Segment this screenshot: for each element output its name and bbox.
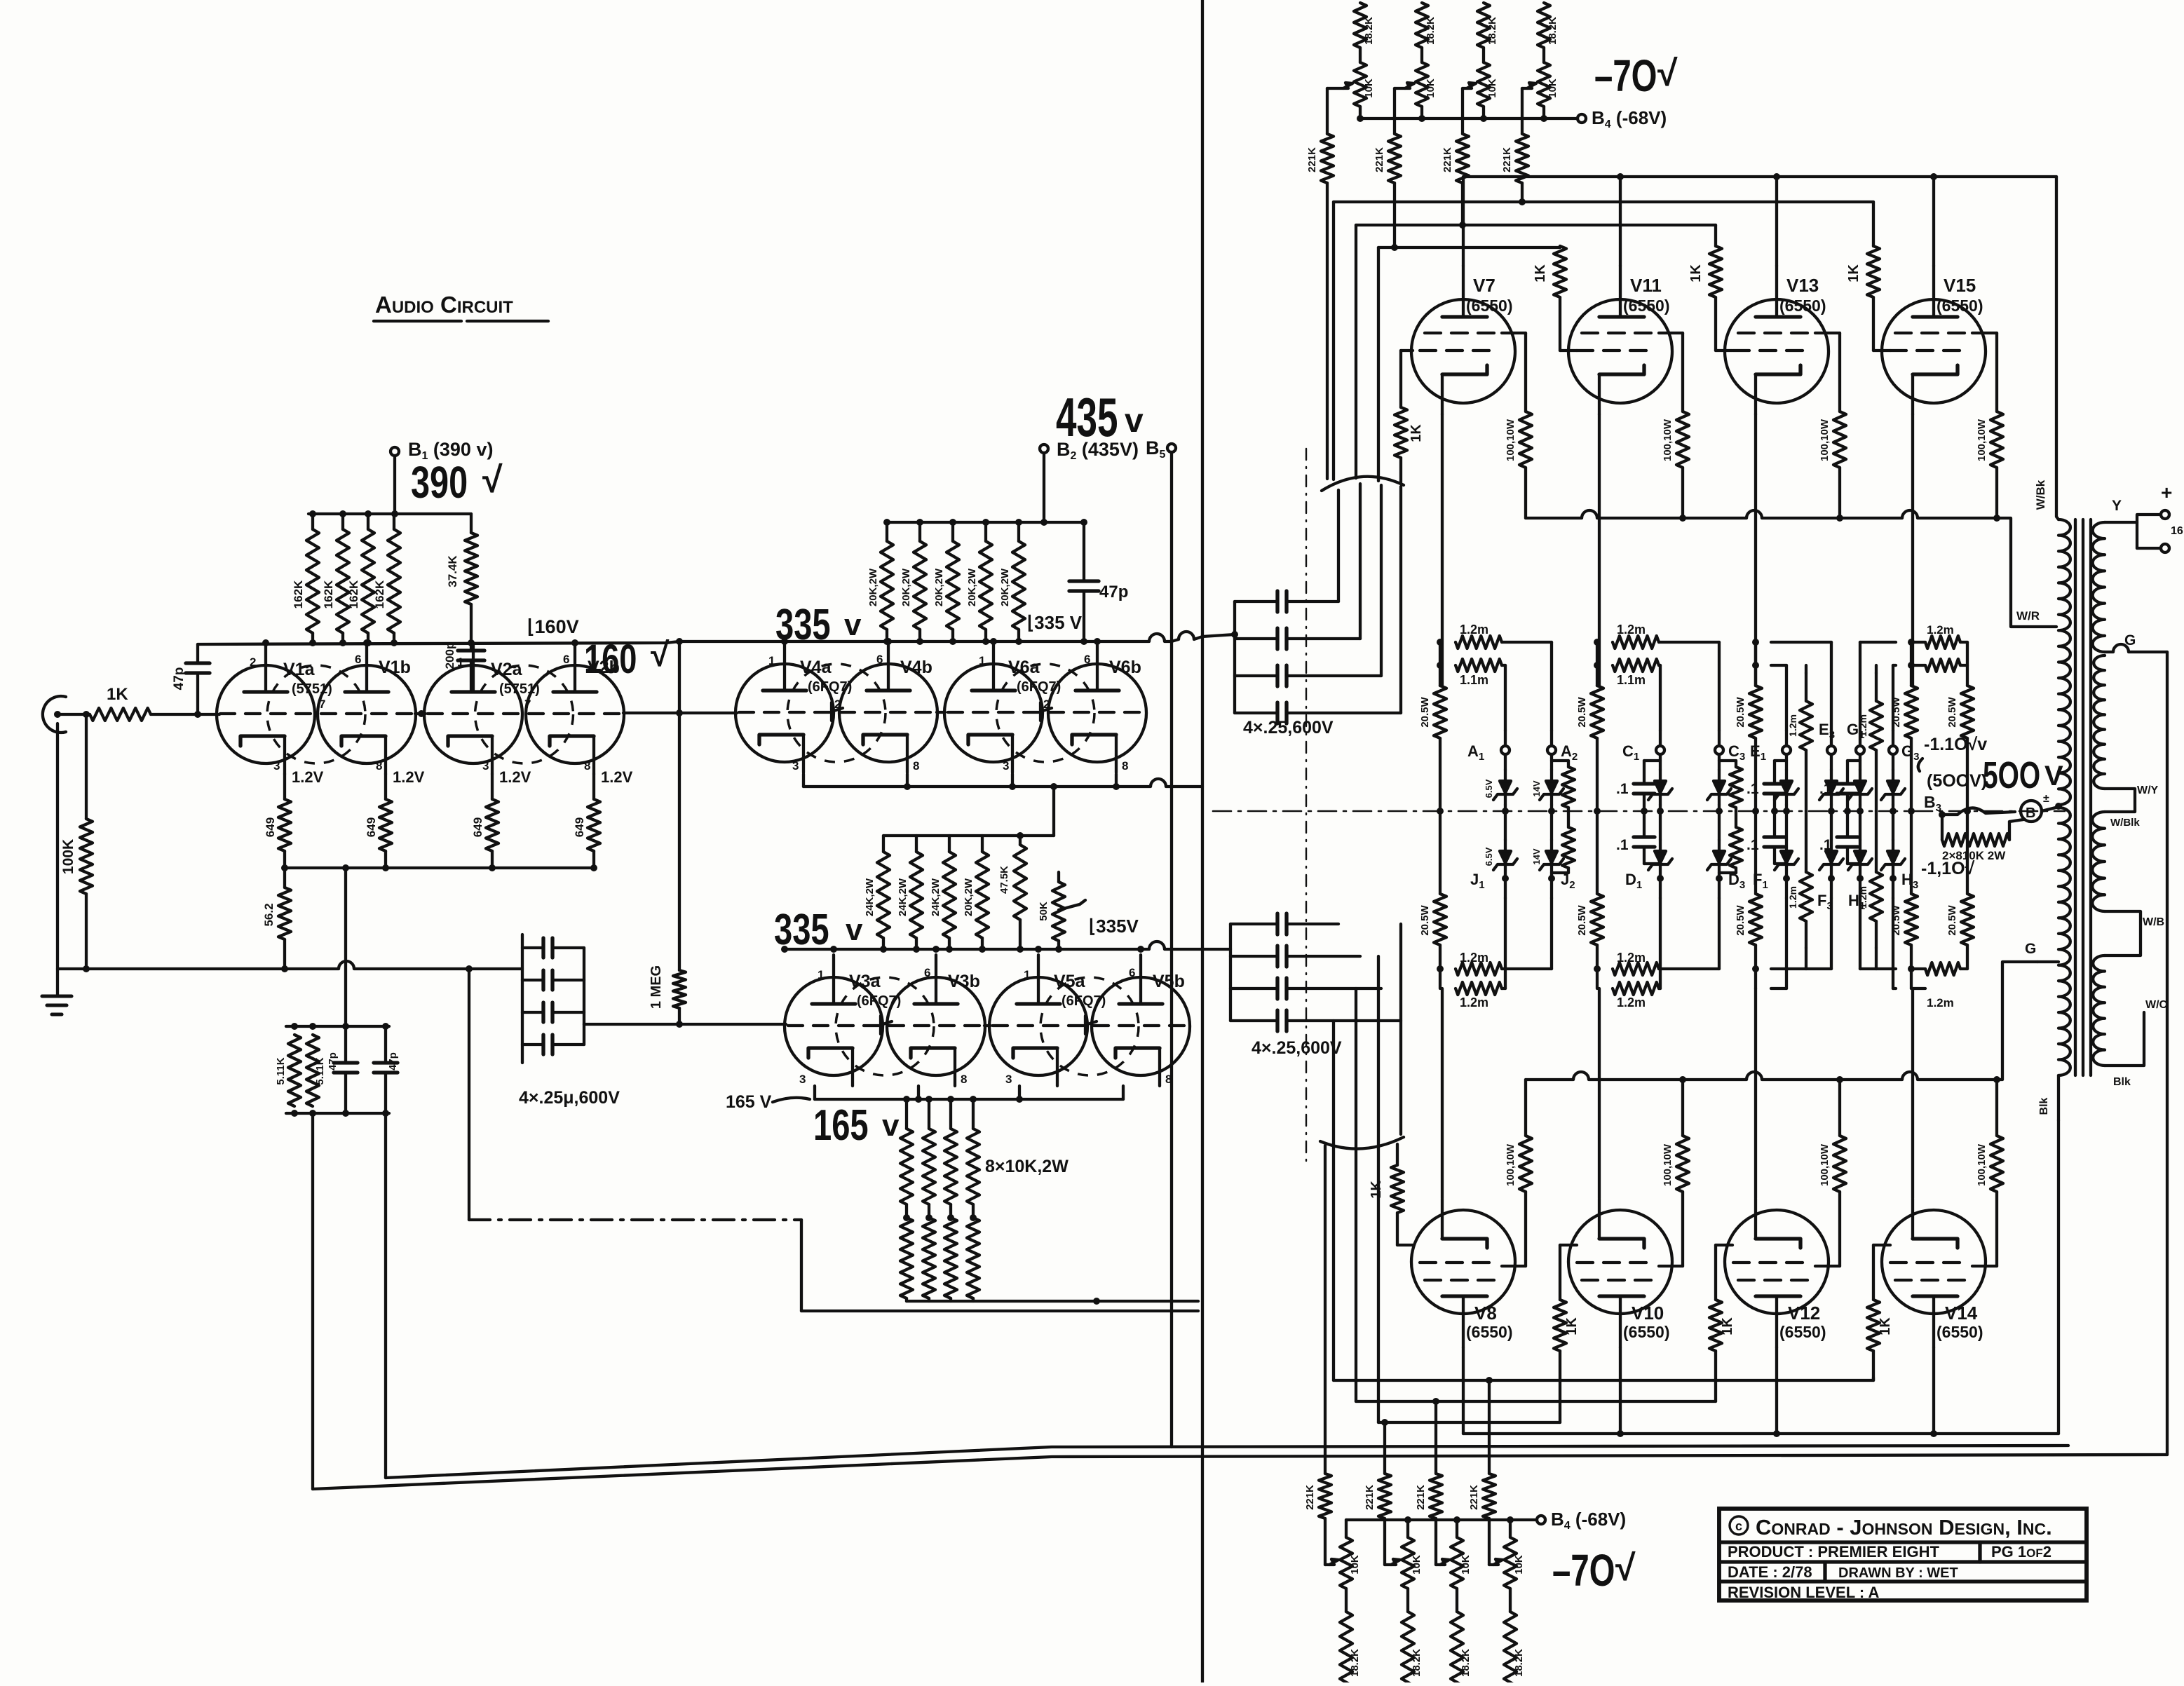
- wire riser u4 below arc: [1399, 487, 1402, 713]
- svg-text:24K,2W: 24K,2W: [897, 878, 909, 916]
- resistor R 221K up #2: [1374, 88, 1401, 183]
- svg-text:6: 6: [876, 653, 883, 666]
- node J2: [1548, 871, 1575, 898]
- svg-text:5OO: 5OO: [1983, 754, 2040, 796]
- svg-text:8: 8: [584, 759, 590, 773]
- svg-text:37.4K: 37.4K: [446, 555, 459, 587]
- capacitor C .25 upper #1: [1235, 591, 1338, 612]
- bus 8x10K bottom: [907, 1298, 1198, 1305]
- resistor R 56.2: [262, 868, 291, 972]
- label 165V small: [726, 1092, 810, 1112]
- bus 162K top: [308, 510, 471, 517]
- resistor R 20.5W column x2054: [1419, 639, 1446, 988]
- wire screen stub lower: [1815, 1265, 1840, 1267]
- svg-text:1K: 1K: [1720, 1317, 1735, 1335]
- svg-text:1K: 1K: [107, 685, 128, 704]
- svg-text:18.2K: 18.2K: [1363, 17, 1375, 45]
- resistor R 20.5W column x2504: [1735, 639, 1762, 988]
- wire screen stub lower: [1972, 1265, 1997, 1267]
- terminal B4 lower: [1537, 1509, 1626, 1532]
- svg-text:6: 6: [1129, 966, 1135, 979]
- wire plate lead down: [1775, 1347, 1778, 1434]
- resistor R 18.2K down #4: [1504, 1589, 1525, 1686]
- label W/Bk: [2034, 480, 2047, 510]
- svg-text:V12: V12: [1788, 1303, 1820, 1324]
- svg-text:1K: 1K: [1564, 1317, 1580, 1335]
- svg-text:W/B: W/B: [2143, 916, 2164, 928]
- svg-text:⌊335V: ⌊335V: [1089, 916, 1139, 937]
- tube V1 (5751) dual triode: [217, 643, 416, 774]
- svg-text:165: 165: [813, 1101, 869, 1150]
- tube V5 (6FQ7) dual triode: [989, 955, 1190, 1086]
- svg-text:1.2m: 1.2m: [1460, 995, 1488, 1009]
- label V6b: [1109, 658, 1141, 677]
- resistor R 20K,2W #4: [966, 522, 992, 641]
- capacitor column .1 g3: [1746, 761, 1786, 864]
- wire cathode up lower: [1441, 988, 1444, 1198]
- svg-text:6: 6: [1084, 653, 1090, 666]
- resistor R 100,10W lower: [1662, 1080, 1689, 1266]
- svg-text:PG 1OF2: PG 1OF2: [1991, 1543, 2051, 1561]
- svg-text:DRAWN BY : WET: DRAWN BY : WET: [1838, 1565, 1958, 1581]
- resistor network 2x810K: [1942, 815, 2023, 862]
- zener column A1-J1: [1484, 754, 1517, 876]
- svg-text:4×.25,600V: 4×.25,600V: [1243, 718, 1334, 737]
- svg-text:1: 1: [768, 654, 775, 667]
- svg-text:√: √: [1657, 53, 1678, 94]
- svg-text:(6FQ7): (6FQ7): [857, 993, 901, 1009]
- label -1,10 lower: [1921, 859, 1975, 878]
- svg-text:V5a: V5a: [1054, 972, 1086, 991]
- wire screen stub: [1815, 332, 1840, 334]
- svg-text:10K: 10K: [1486, 79, 1498, 98]
- svg-text:47p: 47p: [327, 1052, 339, 1070]
- resistor R 162K #4: [373, 514, 400, 643]
- svg-text:162K: 162K: [322, 580, 335, 609]
- bus 24K bank top: [883, 783, 1057, 836]
- svg-text:100,10W: 100,10W: [1976, 1143, 1988, 1186]
- svg-text:1: 1: [979, 654, 985, 667]
- cell group4 rails: [1860, 642, 1896, 988]
- svg-text:G: G: [2124, 632, 2136, 648]
- svg-text:1.2V: 1.2V: [393, 768, 425, 786]
- svg-text:-1.1O√v: -1.1O√v: [1924, 735, 1987, 754]
- svg-text:W/C: W/C: [2145, 999, 2168, 1011]
- resistor R 100,10W upper: [1662, 333, 1689, 518]
- wire 1K to V1a grid: [83, 711, 219, 718]
- terminal B1: [391, 439, 493, 462]
- resistor R 1 MEG: [649, 965, 686, 1024]
- resistor R 24K,2W lower #1: [864, 836, 890, 949]
- title block frame: [1719, 1509, 2087, 1600]
- svg-text:56.2: 56.2: [262, 903, 276, 926]
- node C1: [1622, 730, 1664, 763]
- wire sec 16ohm: [2137, 522, 2183, 552]
- svg-text:3: 3: [1003, 759, 1009, 773]
- svg-text:4×.25μ,600V: 4×.25μ,600V: [519, 1088, 620, 1108]
- resistor R 100,10W upper: [1819, 333, 1846, 518]
- svg-text:(6550): (6550): [1937, 297, 1983, 315]
- svg-text:V2a: V2a: [491, 660, 523, 679]
- resistor R 10K up #1: [1354, 62, 1375, 118]
- tube V2 (5751) dual triode: [424, 643, 624, 774]
- wire cathode up lower: [1754, 988, 1757, 1198]
- svg-text:.1: .1: [1746, 781, 1759, 797]
- svg-text:+: +: [2161, 482, 2172, 503]
- resistor R 649 cathode #3: [471, 768, 531, 871]
- wire screen stub: [1502, 332, 1526, 334]
- svg-text:B4 (-68V): B4 (-68V): [1592, 107, 1667, 130]
- tube V4 (6FQ7) dual triode: [735, 641, 937, 773]
- resistor R 100,10W upper: [1505, 333, 1532, 518]
- terminal B5: [1146, 437, 1176, 461]
- label V8: [1466, 1303, 1512, 1341]
- wire col4 to busA: [1521, 183, 1524, 202]
- resistor column 1.2m g3a: [1787, 665, 1812, 969]
- resistor R 1K grid V7: [1395, 351, 1424, 484]
- node A2: [1547, 730, 1578, 763]
- wire sec tap WY: [2105, 784, 2159, 829]
- wire plate lead down: [1619, 1347, 1622, 1434]
- label 335V small upper: [1027, 612, 1083, 633]
- ground bus left: [57, 723, 473, 972]
- wire riser u2 below arc: [1359, 484, 1362, 639]
- svg-text:8: 8: [1165, 1073, 1172, 1086]
- svg-text:100,10W: 100,10W: [1819, 1143, 1831, 1186]
- svg-text:100,10W: 100,10W: [1976, 419, 1988, 461]
- label 335V big upper: [775, 600, 862, 649]
- wire plate lead up: [1775, 177, 1778, 266]
- svg-text:100K: 100K: [60, 839, 76, 874]
- resistor R 162K #2: [322, 514, 349, 643]
- capacitor C .25u left #1: [522, 938, 584, 958]
- resistor R 20K,2W #2: [900, 522, 926, 641]
- cell group1 rails: [1456, 623, 1552, 1009]
- svg-text:V: V: [2044, 761, 2063, 791]
- resistor R 10K,2W row2 #1: [900, 1214, 913, 1301]
- node G3: [1889, 730, 1919, 763]
- label V13: [1779, 275, 1826, 315]
- svg-text:221K: 221K: [1304, 1485, 1316, 1510]
- resistor R 100,10W lower: [1505, 1080, 1532, 1266]
- svg-text:W/Y: W/Y: [2137, 784, 2159, 796]
- resistor R 221K down #2: [1364, 1474, 1391, 1518]
- bus grid upper B: [1356, 222, 1716, 246]
- capacitor C .25 lower #3: [1230, 978, 1381, 999]
- bus plates lower: [1463, 1430, 2058, 1437]
- wire grid join V1-V2: [415, 710, 426, 717]
- svg-text:1K: 1K: [1846, 264, 1861, 283]
- resistor R 1K grid lower: [1709, 1245, 1735, 1401]
- wire V3b-V5a grid join: [984, 1024, 991, 1027]
- svg-text:√: √: [482, 460, 503, 501]
- svg-text:10K: 10K: [1349, 1555, 1361, 1575]
- resistor R 1K grid V8: [1369, 1144, 1413, 1245]
- capacitor C .25 upper #4: [1235, 702, 1401, 723]
- wire bias col down #1: [1324, 1145, 1327, 1474]
- svg-text:649: 649: [573, 817, 586, 837]
- tube V3 (6FQ7) dual triode: [785, 955, 985, 1086]
- bus cathode V3V5: [815, 1086, 1123, 1103]
- svg-text:V4a: V4a: [800, 658, 832, 677]
- pins V1: [250, 653, 382, 773]
- svg-text:1.2m: 1.2m: [1460, 951, 1488, 965]
- svg-text:4×.25,600V: 4×.25,600V: [1252, 1038, 1342, 1058]
- svg-text:8: 8: [376, 759, 382, 773]
- node F3: [1817, 875, 1835, 912]
- transformer primary coil: [2055, 519, 2070, 1075]
- bus plate 335V lower: [781, 941, 1230, 953]
- bus cathode V1V2: [285, 864, 594, 871]
- svg-text:6: 6: [563, 653, 569, 666]
- svg-text:100,10W: 100,10W: [1505, 419, 1517, 461]
- capacitor C .25 lower #1: [1230, 913, 1338, 934]
- svg-text:221K: 221K: [1364, 1485, 1376, 1510]
- wire V2b grid to V4a grid: [623, 709, 737, 716]
- svg-text:(6550): (6550): [1779, 1323, 1826, 1341]
- svg-text:20K,2W: 20K,2W: [963, 878, 975, 916]
- resistor R 10K,2W row2 #3: [944, 1214, 957, 1301]
- svg-text:20.5W: 20.5W: [1576, 696, 1588, 727]
- svg-text:2×810K 2W: 2×810K 2W: [1942, 849, 2006, 862]
- svg-text:(5751): (5751): [499, 681, 540, 697]
- cap bank lower left rail: [1229, 924, 1232, 1021]
- label 4x.25,600V lower: [1252, 1038, 1342, 1058]
- pins V2: [457, 653, 590, 773]
- svg-text:±: ±: [2043, 793, 2049, 805]
- svg-text:1K: 1K: [1533, 264, 1548, 283]
- resistor R 100,10W lower: [1976, 1080, 2003, 1266]
- label V4a: [800, 658, 852, 695]
- svg-text:20.5W: 20.5W: [1735, 904, 1746, 935]
- svg-text:7: 7: [524, 698, 531, 711]
- bundle arc lower: [1320, 1137, 1404, 1149]
- cap bank upper rail: [1231, 601, 1238, 713]
- label V7: [1466, 275, 1512, 315]
- svg-text:20.5W: 20.5W: [1946, 904, 1958, 935]
- svg-text:DATE : 2/78: DATE : 2/78: [1728, 1563, 1812, 1581]
- svg-text:.1: .1: [1616, 837, 1629, 853]
- svg-text:20.5W: 20.5W: [1735, 696, 1746, 727]
- svg-text:V6a: V6a: [1008, 658, 1040, 677]
- svg-text:–7O: –7O: [1594, 50, 1657, 101]
- heater mark V3: [881, 1016, 892, 1034]
- svg-text:2: 2: [250, 655, 256, 669]
- svg-text:3: 3: [799, 1073, 806, 1086]
- svg-text:(6FQ7): (6FQ7): [808, 679, 852, 695]
- svg-text:V3a: V3a: [849, 972, 881, 991]
- svg-text:(6FQ7): (6FQ7): [1062, 993, 1106, 1009]
- resistor R 1K grid lower: [1554, 1245, 1580, 1422]
- resistor R 162K #3: [347, 514, 374, 643]
- label W/R: [2016, 609, 2040, 623]
- wire ground bus to capbank: [469, 967, 522, 970]
- svg-text:47p: 47p: [172, 667, 186, 691]
- svg-text:1.2m: 1.2m: [1787, 886, 1798, 909]
- resistor R 649 cathode #4: [573, 768, 633, 871]
- wire bias col down #2: [1383, 1422, 1386, 1474]
- svg-text:V3b: V3b: [948, 972, 980, 991]
- svg-text:1K: 1K: [1688, 264, 1704, 283]
- label V11: [1623, 275, 1669, 315]
- label -70V lower: [1552, 1545, 1636, 1596]
- svg-text:390: 390: [411, 458, 468, 508]
- svg-text:(5OOV): (5OOV): [1927, 771, 1987, 791]
- svg-text:165 V: 165 V: [726, 1092, 772, 1112]
- svg-text:162K: 162K: [373, 580, 386, 609]
- capacitor C .25 lower #2: [1230, 946, 1360, 967]
- pot wiper up #2: [1395, 83, 1414, 88]
- pot 50K: [1038, 872, 1085, 949]
- zener column G3-H3: [1881, 754, 1905, 876]
- svg-text:18.2K: 18.2K: [1425, 17, 1437, 45]
- svg-text:10K: 10K: [1425, 79, 1437, 98]
- resistor R 18.2K down #1: [1340, 1589, 1361, 1686]
- wire screen stub lower: [1659, 1265, 1683, 1267]
- label 335V small lower: [1089, 916, 1139, 937]
- node V3a grid join: [676, 1021, 683, 1028]
- title: AUDIO CIRCUIT: [374, 292, 548, 321]
- svg-text:20.5W: 20.5W: [1419, 904, 1431, 935]
- tube V12 (6550): [1725, 1199, 1829, 1347]
- meter circled B: [2021, 793, 2058, 822]
- svg-text:162K: 162K: [347, 580, 360, 609]
- label V3b: [948, 972, 980, 991]
- svg-text:20.5W: 20.5W: [1419, 696, 1431, 727]
- svg-text:W/Bk: W/Bk: [2034, 480, 2047, 510]
- wire riser u3 above arc: [1355, 225, 1357, 478]
- label V6a: [1008, 658, 1061, 695]
- tube V14 (6550): [1882, 1199, 1986, 1347]
- wire sec top tap: [2105, 482, 2172, 522]
- tube V13 (6550): [1725, 266, 1829, 414]
- resistor R 221K down #3: [1415, 1474, 1442, 1518]
- svg-text:(6550): (6550): [1779, 297, 1826, 315]
- wire col3 to busB: [1461, 183, 1464, 225]
- resistor R 18.2K up #1: [1354, 3, 1375, 62]
- label -1.10V upper: [1918, 735, 1987, 771]
- pot wiper down #4: [1489, 1518, 1503, 1565]
- resistor R 100,10W upper: [1976, 333, 2003, 518]
- pins V4V6: [768, 653, 1128, 773]
- wire col2 to busC: [1393, 183, 1396, 247]
- svg-text:435: 435: [1056, 388, 1118, 449]
- resistor R 10K,2W row2 #2: [923, 1214, 935, 1301]
- resistor R 18.2K up #3: [1477, 3, 1498, 62]
- bus grid upper C: [1378, 244, 1560, 251]
- heater mark V4: [832, 702, 843, 721]
- terminal B3: [1924, 793, 1946, 818]
- input jack J-in: [43, 696, 66, 733]
- resistor R 10K,2W row1 #2: [923, 1099, 935, 1218]
- resistor R 20K,2W #1: [867, 522, 893, 641]
- label V2b: [588, 658, 620, 677]
- svg-text:1 MEG: 1 MEG: [649, 965, 664, 1009]
- label 390V: [411, 458, 503, 508]
- svg-text:REVISION LEVEL : A: REVISION LEVEL : A: [1728, 1584, 1879, 1601]
- resistor R 1K grid upper: [1846, 246, 1890, 351]
- wire B3 to meter: [1942, 808, 2015, 815]
- resistor R 221K down #1: [1304, 1474, 1331, 1518]
- svg-text:1.2m: 1.2m: [1617, 623, 1646, 637]
- label 500V big: [1983, 754, 2063, 796]
- svg-text:V4b: V4b: [900, 658, 932, 677]
- label V10: [1623, 1303, 1669, 1341]
- resistor R 18.2K down #2: [1402, 1589, 1423, 1686]
- capacitor column .1 g2: [1616, 761, 1660, 864]
- wire riser u1 below arc: [1337, 490, 1340, 601]
- label 8x10K,2W: [985, 1157, 1069, 1176]
- svg-text:20K,2W: 20K,2W: [900, 568, 912, 606]
- capacitor column .1 g4: [1819, 761, 1860, 864]
- svg-text:24K,2W: 24K,2W: [864, 878, 876, 916]
- bus plate 160V-335V: [198, 632, 1235, 646]
- svg-text:335: 335: [774, 905, 829, 954]
- svg-text:(6550): (6550): [1937, 1323, 1983, 1341]
- wire screen stub: [1972, 332, 1997, 334]
- resistor R 10K,2W row2 #4: [967, 1214, 979, 1301]
- bus grid lower A: [1334, 1377, 1873, 1384]
- bus screens upper: [1526, 510, 2056, 627]
- svg-text:6: 6: [355, 653, 361, 666]
- svg-text:10K: 10K: [1547, 79, 1559, 98]
- wire riser u4 above arc: [1332, 202, 1335, 480]
- svg-text:3: 3: [273, 759, 280, 773]
- svg-text:100,10W: 100,10W: [1662, 419, 1674, 461]
- svg-text:1.2m: 1.2m: [1857, 714, 1868, 737]
- resistor column 15K g1: [1552, 761, 1575, 873]
- wire riser d1: [1399, 924, 1402, 1134]
- label V5b: [1153, 972, 1185, 991]
- tube V11 (6550): [1568, 266, 1672, 414]
- svg-text:G: G: [2025, 941, 2036, 957]
- capacitor C .25u left #3: [522, 1002, 584, 1022]
- resistor R 221K down #4: [1468, 1474, 1495, 1518]
- resistor R 10K up #3: [1477, 62, 1498, 118]
- wire sec tap WB: [2105, 911, 2164, 956]
- resistor R 47.5K: [998, 832, 1026, 949]
- svg-text:Y: Y: [2112, 498, 2122, 514]
- node E1: [1750, 730, 1791, 763]
- resistor R 1K input: [90, 685, 151, 721]
- wire cathode up lower: [1598, 988, 1601, 1198]
- svg-text:V10: V10: [1632, 1303, 1664, 1324]
- wire sec bottom: [2105, 999, 2168, 1088]
- wire col1 down V7 bias: [1326, 183, 1329, 479]
- resistor R 20K,2W #5: [999, 522, 1025, 641]
- svg-text:(6550): (6550): [1466, 297, 1512, 315]
- label V5a: [1054, 972, 1106, 1009]
- capacitor C 200p: [443, 604, 484, 692]
- cell group2 rails: [1613, 623, 1719, 1009]
- trunk vertical divider: [1201, 0, 1204, 1686]
- svg-text:50K: 50K: [1038, 902, 1050, 921]
- wire plate bus to primary: [2056, 177, 2058, 519]
- svg-text:1.2m: 1.2m: [1617, 995, 1646, 1009]
- resistor R 10K down #1: [1340, 1520, 1361, 1589]
- wire V4b-V6a grid join: [937, 711, 945, 714]
- node D3: [1716, 871, 1745, 898]
- resistor R 1K grid upper: [1533, 246, 1577, 351]
- ground return step path: [469, 969, 1198, 1311]
- svg-text:47.5K: 47.5K: [998, 866, 1010, 894]
- rail feedback top: [286, 1023, 389, 1030]
- resistor R 24K,2W lower #2: [897, 836, 923, 949]
- svg-text:v: v: [844, 608, 862, 642]
- label V3a: [849, 972, 901, 1009]
- label 165V big: [813, 1101, 900, 1150]
- wire primary bottom: [2038, 1075, 2058, 1120]
